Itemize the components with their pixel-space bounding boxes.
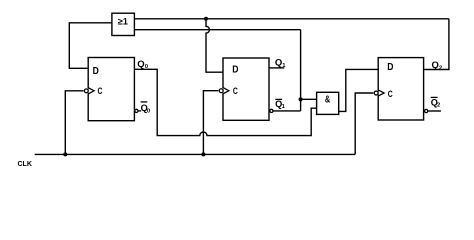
D flip-flop FF1 body [88,58,134,121]
FF3 Q2bar inversion bubble [425,109,428,112]
wire: junction to AND gate input 1 [301,98,317,100]
svg-text:2: 2 [437,103,441,109]
junction at (300.6,99.3) [299,97,303,101]
wire: CLK main line [35,153,356,155]
junction at (206,18.8) [204,17,208,21]
wire: second net horizontal from U1 input 2 [134,29,300,31]
wire: Q0bar stub [138,110,141,112]
and-gate U2 (&amp;) [317,92,339,114]
wire: clock branch to FF1 C [65,91,84,155]
svg-text:D: D [387,61,394,72]
label Q0 [137,59,148,70]
svg-text:C: C [233,86,238,96]
wire: Q1 output stub [269,67,284,69]
or-gate U1 (&#8805;1) [112,13,134,35]
wire: top net horizontal from U1 to right corner [134,18,449,20]
svg-text:≥1: ≥1 [118,17,128,27]
FF1 clock inversion bubble [83,88,89,94]
D flip-flop FF2 body [223,58,269,120]
wire: U2 output to FF3 D input [339,69,379,111]
wire: second net vertical drop to Q1bar level [300,30,302,111]
wire: clock branch to FF2 C [203,91,219,155]
label Q1 [275,58,286,69]
svg-text:1: 1 [282,104,286,110]
svg-text:Q: Q [137,59,144,70]
junction at (65.3,154.4) [63,152,67,156]
label Q2bar [431,97,441,108]
wire: Q1bar output to vertical [273,110,300,112]
svg-text:&: & [325,94,330,105]
label Q1bar [275,99,286,110]
wire: Q2bar stub [428,110,441,112]
svg-text:2: 2 [439,66,443,72]
FF3 clock edge triangle [378,90,384,96]
FF2 Q1bar inversion bubble [270,109,273,112]
svg-text:Q: Q [275,58,282,69]
junction at (203.4,154.4) [201,152,205,156]
FF3 clock inversion bubble [373,90,379,96]
label Q2 [432,60,443,72]
svg-text:D: D [232,64,239,75]
svg-text:C: C [98,86,103,96]
svg-text:CLK: CLK [18,161,32,168]
FF2 clock inversion bubble [218,88,224,94]
svg-text:0: 0 [147,108,151,114]
svg-text:C: C [388,89,393,99]
wire: U1 output to FF1 D input [69,23,112,69]
svg-text:D: D [93,65,100,76]
D flip-flop FF3 body [378,58,423,120]
wire: Q0 output net to AND input 2, hops over FF2 clock line [134,69,316,135]
FF1 clock edge triangle [88,88,94,94]
FF2 clock edge triangle [223,88,229,94]
wire: top net right drop to Q2 output [424,19,449,70]
wire: clock branch to FF3 C [355,93,374,154]
wire: drop from top net to FF2 D input, hops over lower net [206,19,223,72]
svg-text:Q: Q [432,60,439,71]
FF1 Q0bar inversion bubble [135,109,138,112]
label Q0bar [141,102,151,115]
